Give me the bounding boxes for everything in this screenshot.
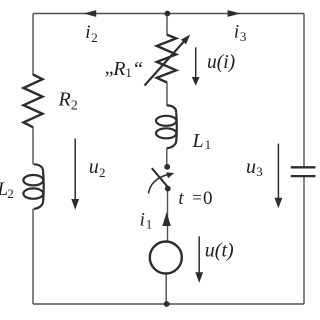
node bottom junction — [164, 301, 170, 307]
svg-text:t: t — [178, 188, 184, 209]
arrow u3 shaft — [277, 144, 279, 199]
svg-text:R: R — [112, 58, 125, 80]
arrow i2 (left) on top wire — [84, 10, 97, 17]
arrow i3 (right) on top wire — [228, 10, 241, 17]
wire middle R1-L1 — [166, 83, 168, 106]
arrow u3 head — [275, 198, 283, 208]
wire right lower — [303, 176, 305, 304]
resistor R1 diagonal arrow head — [181, 35, 190, 45]
wire right upper — [303, 14, 305, 168]
inductor L2 loop 1 — [23, 175, 43, 185]
svg-text:1: 1 — [205, 137, 212, 152]
svg-text:3: 3 — [256, 164, 263, 179]
arrow u2 head — [71, 199, 79, 210]
wire middle source-bottom — [165, 273, 167, 304]
inductor L2 right edge — [42, 171, 45, 201]
svg-text:u: u — [246, 156, 256, 178]
svg-text:i: i — [140, 209, 145, 230]
svg-text:2: 2 — [91, 30, 98, 45]
wire left lower — [32, 209, 34, 304]
svg-text:1: 1 — [125, 65, 131, 80]
svg-text:=: = — [192, 188, 202, 207]
inductor L1 right edge — [175, 112, 178, 140]
source u(t) circle — [150, 242, 182, 274]
wire middle top — [166, 14, 168, 36]
switch blade — [152, 168, 169, 188]
switch motion arc — [148, 175, 167, 194]
wire top — [33, 13, 304, 15]
wire bottom — [33, 303, 304, 305]
capacitor C top plate — [291, 166, 316, 168]
svg-text:3: 3 — [240, 29, 247, 44]
arrow u(t) shaft — [198, 236, 200, 272]
wire left middle — [32, 127, 34, 165]
inductor L1 loop 1 — [156, 116, 176, 126]
inductor L1 top hook — [167, 105, 176, 112]
arrow i1 head (on middle wire, up) — [162, 212, 170, 226]
resistor R2 — [24, 75, 43, 128]
node top junction — [165, 11, 171, 17]
wire middle L1-switch — [166, 148, 168, 167]
inductor L2 top hook — [34, 164, 43, 171]
svg-text:2: 2 — [99, 165, 106, 180]
arrow u(i) shaft — [195, 47, 197, 77]
arrow u(t) head — [195, 272, 203, 283]
svg-text:i: i — [234, 22, 239, 43]
switch bottom contact dot — [165, 186, 171, 192]
svg-text:0: 0 — [203, 188, 213, 209]
svg-text:u(t): u(t) — [205, 240, 234, 262]
svg-text:R: R — [58, 89, 71, 111]
wire middle switch-source — [167, 189, 169, 242]
svg-text:u: u — [89, 156, 99, 178]
arrow u(i) head — [192, 77, 200, 86]
wire left upper — [32, 14, 34, 76]
capacitor C bottom plate — [291, 175, 316, 177]
svg-text:u(i): u(i) — [207, 52, 235, 73]
svg-text:“: “ — [132, 58, 143, 80]
switch top contact dot — [164, 164, 170, 170]
arrow u2 shaft — [74, 139, 76, 200]
resistor R1 diagonal arrow shaft — [145, 41, 185, 86]
svg-text:2: 2 — [71, 99, 78, 114]
svg-text:1: 1 — [146, 216, 153, 231]
switch motion arrow head — [166, 172, 174, 178]
inductor L2 loop 2 — [23, 188, 43, 198]
inductor L1 loop 2 — [156, 128, 176, 138]
resistor R1 (nonlinear, zigzag) — [157, 35, 176, 83]
svg-text:L: L — [192, 130, 204, 152]
inductor L2 bottom hook — [34, 201, 43, 209]
inductor L1 bottom hook — [167, 141, 177, 149]
svg-text:2: 2 — [7, 186, 14, 201]
svg-text:i: i — [85, 22, 90, 43]
